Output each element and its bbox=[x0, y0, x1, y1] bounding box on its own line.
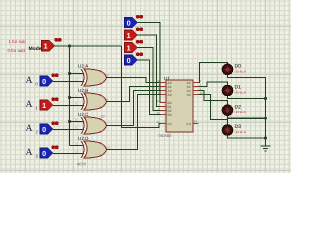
svg-text:U2:A: U2:A bbox=[78, 64, 89, 69]
pin numbers left bbox=[156, 79, 160, 124]
svg-text:Mode: Mode bbox=[29, 46, 42, 52]
logic state B3 value 0 bbox=[125, 52, 144, 65]
svg-text:1: 1 bbox=[42, 101, 46, 110]
wire gate A output to adder A0 bbox=[106, 78, 166, 83]
wire D3 cathode to rail bbox=[228, 135, 266, 138]
wire A2 to gate bbox=[53, 129, 83, 131]
svg-text:LED-BLUE: LED-BLUE bbox=[235, 70, 247, 73]
svg-text:A: A bbox=[26, 123, 33, 134]
svg-text:0: 0 bbox=[42, 77, 46, 86]
svg-text:12: 12 bbox=[75, 142, 79, 146]
label A2 bbox=[26, 123, 39, 135]
pin numbers right bbox=[194, 79, 203, 123]
major grid lines bbox=[0, 0, 291, 173]
XOR gate U2:A bbox=[78, 64, 109, 86]
wire S3 to LED D3 bbox=[199, 95, 228, 125]
label A3 bbox=[26, 147, 39, 159]
svg-text:0: 0 bbox=[42, 125, 46, 134]
logic state A2 value 0 bbox=[40, 121, 59, 134]
wire A1 to gate bbox=[53, 105, 83, 107]
wire gate D output to adder A3 bbox=[106, 95, 166, 150]
logic state A3 value 0 bbox=[40, 145, 59, 158]
svg-text:D2: D2 bbox=[235, 104, 242, 110]
wire B0 to adder bbox=[138, 23, 167, 103]
svg-text:0: 0 bbox=[127, 56, 131, 65]
svg-text:16: 16 bbox=[156, 111, 160, 115]
svg-text:A3: A3 bbox=[168, 93, 172, 97]
svg-text:0: 0 bbox=[42, 149, 46, 158]
logic state B1 value 1 bbox=[125, 27, 144, 40]
gate input pin numbers bbox=[75, 70, 79, 154]
svg-text:13: 13 bbox=[75, 150, 79, 154]
svg-text:1 for sub: 1 for sub bbox=[9, 39, 27, 44]
wire A3 to gate bbox=[53, 153, 83, 155]
label A1 bbox=[26, 99, 39, 111]
LED D1 bbox=[222, 85, 246, 96]
wire XOR C upper input bbox=[70, 121, 84, 123]
svg-text:0: 0 bbox=[127, 18, 131, 27]
svg-text:LED-BLUE: LED-BLUE bbox=[235, 111, 247, 114]
pin names left bbox=[168, 81, 172, 126]
svg-text:10: 10 bbox=[101, 115, 105, 119]
label A0 bbox=[26, 75, 39, 87]
svg-text:74LS83: 74LS83 bbox=[158, 133, 173, 138]
svg-text:1: 1 bbox=[127, 43, 131, 52]
node Mode junction bbox=[68, 45, 71, 48]
svg-text:U2:C: U2:C bbox=[78, 112, 89, 117]
wire B1 to adder bbox=[138, 35, 167, 107]
wire B3 to adder bbox=[138, 60, 167, 115]
pin stubs right bbox=[193, 83, 199, 124]
logic state Mode value 1 bbox=[42, 38, 62, 51]
svg-text:LED-BLUE: LED-BLUE bbox=[235, 131, 247, 134]
svg-text:13: 13 bbox=[156, 120, 160, 124]
LED D3 bbox=[222, 124, 246, 135]
logic state B0 value 0 bbox=[125, 15, 144, 28]
svg-text:C4: C4 bbox=[187, 122, 191, 126]
wire gate C output to adder A2 bbox=[106, 91, 166, 126]
ground symbol bbox=[261, 146, 271, 151]
logic state A1 value 1 bbox=[40, 97, 59, 110]
svg-text:4070: 4070 bbox=[77, 162, 87, 167]
adder U1 7483 bbox=[158, 76, 194, 138]
node junction gate C bbox=[68, 120, 71, 123]
XOR gate U2:D bbox=[78, 136, 111, 158]
wire C0 vertical from Mode bbox=[122, 46, 167, 128]
XOR gate U2:C bbox=[78, 112, 107, 134]
svg-text:LED-BLUE: LED-BLUE bbox=[235, 91, 247, 94]
wire B2 to adder bbox=[138, 48, 167, 111]
svg-text:C0: C0 bbox=[168, 122, 172, 126]
logic state B2 value 1 bbox=[125, 40, 144, 53]
node junction gate B bbox=[68, 96, 71, 99]
node rail junction D3 bbox=[264, 137, 267, 140]
LED D2 bbox=[222, 104, 246, 115]
svg-text:D1: D1 bbox=[235, 85, 242, 91]
svg-text:14: 14 bbox=[194, 119, 198, 123]
wire ground rail bbox=[265, 78, 267, 147]
wire D2 cathode to rail bbox=[228, 116, 266, 119]
svg-text:3: 3 bbox=[107, 73, 109, 77]
svg-text:1: 1 bbox=[44, 42, 48, 51]
svg-text:D0: D0 bbox=[235, 64, 242, 70]
wire S2 to LED D2 bbox=[199, 91, 228, 105]
svg-text:U2:B: U2:B bbox=[78, 88, 88, 93]
pin names right bbox=[187, 81, 191, 126]
pin stubs left bbox=[161, 83, 167, 124]
node rail junction D1 bbox=[264, 97, 267, 100]
wire A0 to gate bbox=[53, 81, 83, 83]
svg-text:A: A bbox=[26, 147, 33, 158]
svg-text:0 for add: 0 for add bbox=[8, 48, 26, 53]
wire S0 to LED D0 bbox=[199, 63, 228, 83]
wire XOR B upper input bbox=[70, 97, 84, 99]
LED D0 bbox=[222, 64, 246, 75]
node junction gate A bbox=[68, 72, 71, 75]
wire gate B output to adder A1 bbox=[106, 87, 166, 102]
wire Mode vertical bus to XOR inputs bbox=[69, 46, 71, 146]
svg-text:A: A bbox=[26, 99, 33, 110]
wire XOR D upper input bbox=[70, 145, 84, 147]
grid background bbox=[0, 0, 291, 173]
wire S1 to LED D1 bbox=[199, 82, 228, 87]
svg-text:D3: D3 bbox=[235, 124, 242, 130]
svg-text:A: A bbox=[26, 75, 33, 86]
wire Mode output horizontal bbox=[55, 45, 122, 47]
wire XOR A upper input bbox=[70, 73, 84, 75]
svg-text:4: 4 bbox=[107, 97, 109, 101]
svg-text:U2:D: U2:D bbox=[78, 136, 89, 141]
wire D1 cathode to rail bbox=[228, 96, 266, 99]
wire D0 cathode to rail bbox=[228, 75, 266, 78]
svg-text:1: 1 bbox=[127, 31, 131, 40]
logic state A0 value 0 bbox=[40, 73, 59, 86]
XOR gate U2:B bbox=[78, 88, 109, 110]
node rail junction D2 bbox=[264, 117, 267, 120]
svg-text:S3: S3 bbox=[187, 93, 191, 97]
svg-text:B3: B3 bbox=[168, 113, 172, 117]
